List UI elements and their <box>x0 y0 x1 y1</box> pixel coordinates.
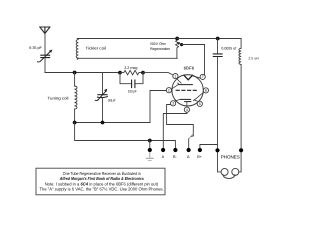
node junction tank bottom left <box>73 121 77 125</box>
svg-text:A: A <box>162 155 165 159</box>
capacitor C4 0.0025 uf bypass <box>213 39 222 149</box>
tube plate (inverted V) <box>184 75 192 80</box>
node junction grid leak left <box>118 71 122 75</box>
wire heater pin 4 to terminal A <box>163 112 187 148</box>
pot wiper arrow <box>177 42 183 46</box>
potentiometer R2 500K regeneration (right edge of box) <box>176 39 179 59</box>
wire antenna to C1 <box>44 34 46 55</box>
tube internal lead pin3 <box>175 100 180 101</box>
node junction tuning coil top <box>73 71 77 75</box>
terminal phones right <box>239 148 243 152</box>
switch S1 (filament) <box>189 133 194 148</box>
terminal B+ <box>198 148 202 152</box>
tube internal lead pin5 <box>194 100 198 102</box>
node junction 365pF bottom <box>101 121 105 125</box>
capacitor C3 100 pF (parallel with R1) <box>120 73 143 88</box>
svg-text:Regeneration: Regeneration <box>150 47 170 51</box>
tube internal lead pin7 <box>192 76 200 78</box>
svg-text:500 K Ohm: 500 K Ohm <box>150 42 166 46</box>
svg-text:6-35 pF: 6-35 pF <box>29 46 42 50</box>
wire grid leak to pin 1 <box>143 73 173 75</box>
tube cathode <box>180 98 190 100</box>
wire wiper to pin 7 <box>182 45 205 76</box>
tube heater bar <box>185 101 191 103</box>
svg-text:1: 1 <box>174 74 176 78</box>
svg-text:365 pF: 365 pF <box>108 99 116 103</box>
terminal B- <box>173 148 177 152</box>
note box <box>36 168 165 195</box>
svg-text:6BF6: 6BF6 <box>184 66 195 71</box>
pin 7 <box>200 74 205 79</box>
svg-text:The "A" supply is 6 VAC, the ": The "A" supply is 6 VAC, the "B" 67½ VDC… <box>40 187 164 192</box>
svg-text:100 pF: 100 pF <box>128 89 137 93</box>
label 500 K Ohm Regeneration <box>150 42 170 51</box>
terminal phones left <box>215 148 219 152</box>
svg-text:6: 6 <box>205 89 207 93</box>
svg-text:5: 5 <box>199 102 201 106</box>
wire heater pin 3 to switch <box>167 105 194 135</box>
tube internal lead pin6 <box>194 92 205 101</box>
coil L1 tuning coil <box>75 73 77 123</box>
node junction pot top / plate bus <box>175 37 179 41</box>
capacitor C2 365 pF (variable tuning) <box>95 73 107 123</box>
pin 4 <box>184 107 189 112</box>
wire cathode pin 2 to tank bottom <box>150 91 166 123</box>
tube V1 6BF6 envelope <box>172 75 203 106</box>
pin 5 <box>197 101 202 106</box>
svg-text:2: 2 <box>168 89 170 93</box>
wire junction to GND terminal <box>149 141 151 149</box>
svg-text:PHONES: PHONES <box>221 154 240 159</box>
node junction bypass cap top <box>216 37 220 41</box>
svg-text:B+: B+ <box>197 155 203 159</box>
coil L2 2.5 uH RF choke <box>239 39 241 149</box>
terminal GND <box>148 148 152 152</box>
antenna <box>40 27 50 34</box>
terminal A (right) <box>187 148 191 152</box>
tube internal lead pin1 <box>177 78 182 83</box>
pin 3 <box>171 101 176 106</box>
tube internal lead pin4 <box>186 102 188 107</box>
node junction grid leak right <box>141 71 145 75</box>
svg-text:3: 3 <box>172 102 174 106</box>
capacitor C1 6-35 pF (antenna trimmer, variable) <box>37 50 52 63</box>
svg-text:2.5 uH: 2.5 uH <box>248 56 259 60</box>
svg-text:7: 7 <box>202 75 204 79</box>
svg-text:4: 4 <box>186 108 188 112</box>
svg-text:Tickler coil: Tickler coil <box>86 46 107 51</box>
wire C1 to grid bus <box>44 58 46 73</box>
svg-text:2.2 meg: 2.2 meg <box>124 66 137 70</box>
wire grid bus (antenna to grid leak) <box>45 72 120 74</box>
tube internal bar with hooks <box>178 83 193 84</box>
pin 1 <box>173 74 178 79</box>
svg-text:0.0025 uf: 0.0025 uf <box>221 46 237 50</box>
transformer T1 tickler coil box <box>76 39 177 60</box>
resistor R1 2.2 meg grid leak <box>120 70 143 74</box>
tube internal lead pin2 <box>171 85 178 90</box>
phones jack symbol <box>218 152 242 178</box>
svg-text:A: A <box>187 155 190 159</box>
terminal A (left) <box>161 148 165 152</box>
pin 2 <box>166 88 171 93</box>
wire plate bus top <box>177 38 241 40</box>
node junction ground terminal <box>148 139 152 143</box>
pin 6 <box>203 88 208 93</box>
tube grid (dashed) <box>176 89 198 91</box>
wire B+ to phones <box>200 145 218 149</box>
wire ground bus <box>75 123 176 149</box>
ground symbol <box>146 152 153 160</box>
svg-text:Tuning coil: Tuning coil <box>48 95 69 100</box>
wire tank bottom bus <box>75 122 150 124</box>
note text <box>40 171 164 192</box>
